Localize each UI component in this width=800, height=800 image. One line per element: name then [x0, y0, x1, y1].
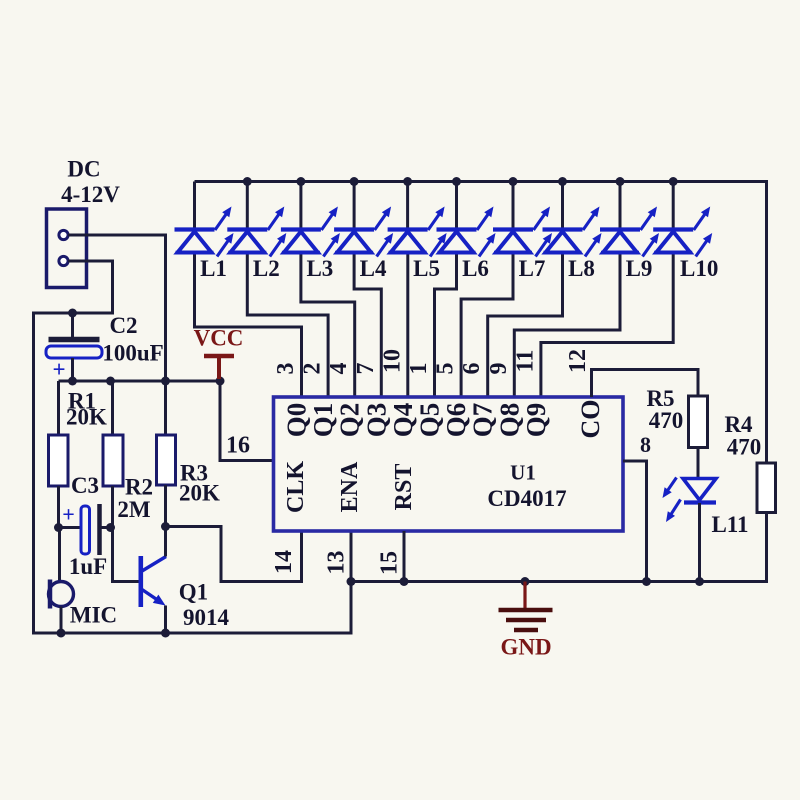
- svg-text:DC: DC: [67, 157, 100, 182]
- svg-text:+: +: [62, 502, 75, 527]
- svg-text:12: 12: [565, 349, 591, 373]
- svg-text:Q0: Q0: [282, 403, 312, 438]
- label GND: [500, 635, 551, 660]
- LED L1: [175, 182, 302, 398]
- label R1 value 20K: [66, 405, 107, 430]
- svg-text:470: 470: [649, 408, 684, 433]
- label pin 13: [324, 551, 350, 575]
- wire IC pin 8 to ground: [623, 461, 647, 582]
- wire C3 to R2 node: [100, 526, 111, 529]
- svg-text:L2: L2: [253, 256, 280, 281]
- resistor R5: [689, 396, 708, 448]
- node VCC-R2: [106, 377, 115, 386]
- resistor R1: [49, 381, 69, 528]
- node VCC-pin16 corner: [216, 377, 225, 386]
- transistor Q1 emitter stroke with arrow: [142, 590, 166, 606]
- label L11: [711, 512, 748, 537]
- transistor Q1 base bar: [139, 556, 144, 607]
- transistor Q1 collector stroke: [142, 557, 166, 572]
- node MIC-ground rail: [57, 629, 66, 638]
- svg-text:CO: CO: [576, 400, 605, 439]
- LED L10: [541, 182, 712, 398]
- svg-text:11: 11: [512, 350, 538, 373]
- terminal pin 1 (DC+): [59, 230, 68, 239]
- label CLK: [283, 461, 309, 513]
- label R5 value 470: [649, 408, 684, 433]
- svg-text:MIC: MIC: [70, 603, 117, 628]
- svg-text:16: 16: [226, 433, 250, 459]
- node C3-R2-base: [106, 523, 115, 532]
- wire CO pin 12 to R5: [592, 370, 699, 398]
- svg-text:Q1: Q1: [308, 403, 338, 438]
- power symbol VCC: [204, 356, 234, 379]
- node ENA-ground line: [347, 577, 356, 586]
- svg-text:L5: L5: [413, 256, 440, 281]
- label R3: [180, 461, 208, 486]
- label C3: [71, 473, 99, 498]
- label L4: [360, 256, 387, 281]
- label pin 11: [512, 350, 538, 373]
- label R1: [68, 389, 96, 414]
- wire LED cathode bus to R4: [195, 182, 767, 463]
- node pin8-ground line: [642, 577, 651, 586]
- svg-text:L1: L1: [200, 256, 227, 281]
- label pin 12: [565, 349, 591, 373]
- svg-text:9014: 9014: [183, 605, 230, 630]
- capacitor C2 wire bottom: [71, 358, 74, 381]
- svg-text:L3: L3: [306, 256, 333, 281]
- label pin 14: [271, 550, 297, 574]
- wire collector to CLK pin 14: [166, 527, 302, 582]
- svg-text:470: 470: [727, 435, 762, 460]
- label VCC: [194, 326, 244, 351]
- svg-text:Q3: Q3: [361, 403, 391, 438]
- wire DC+ to VCC rail: [68, 235, 166, 381]
- LED L4: [334, 182, 393, 398]
- label L3: [306, 256, 333, 281]
- svg-text:Q4: Q4: [388, 403, 418, 438]
- svg-text:10: 10: [379, 349, 405, 373]
- label pin 6: [459, 363, 485, 375]
- resistor R2: [103, 381, 123, 528]
- svg-text:C3: C3: [71, 473, 99, 498]
- microphone MIC symbol: [49, 580, 74, 609]
- label 9014: [183, 605, 230, 630]
- svg-text:14: 14: [271, 550, 297, 574]
- LED L6: [435, 182, 496, 398]
- terminal pin 2 (DC-): [59, 256, 68, 265]
- label L10: [680, 256, 718, 281]
- svg-text:1: 1: [406, 363, 432, 375]
- LED L3: [281, 182, 355, 398]
- node VCC-R3: [161, 377, 170, 386]
- label L6: [462, 256, 489, 281]
- label L8: [568, 256, 595, 281]
- svg-text:100uF: 100uF: [102, 341, 163, 366]
- label L2: [253, 256, 280, 281]
- label pin 5: [433, 363, 459, 375]
- svg-text:CD4017: CD4017: [487, 486, 566, 511]
- LED L11: [663, 478, 717, 523]
- svg-text:4: 4: [326, 363, 352, 375]
- label RST: [391, 464, 417, 511]
- label pin 1: [406, 363, 432, 375]
- capacitor C2 plate positive: [46, 346, 102, 358]
- svg-text:5: 5: [433, 363, 459, 375]
- svg-text:15: 15: [377, 551, 403, 575]
- label L1: [200, 256, 227, 281]
- svg-text:9: 9: [486, 363, 512, 375]
- node L11-ground line: [695, 577, 704, 586]
- svg-text:Q8: Q8: [494, 403, 524, 438]
- wire L11 to ground line: [698, 503, 701, 582]
- polarity + of C2: [52, 357, 65, 382]
- svg-text:L8: L8: [568, 256, 595, 281]
- node GND stem: [521, 577, 530, 586]
- svg-text:L6: L6: [462, 256, 489, 281]
- svg-text:L9: L9: [626, 256, 653, 281]
- svg-text:13: 13: [324, 551, 350, 575]
- nodes on LED bus: [243, 177, 678, 186]
- LED L9: [514, 182, 659, 398]
- microphone MIC wire top: [58, 528, 61, 584]
- node R1-C3-MIC: [54, 523, 63, 532]
- resistor R3: [157, 381, 176, 527]
- capacitor C3 plate negative: [97, 504, 102, 555]
- label R2 value 2M: [117, 497, 151, 522]
- label 100uF: [102, 341, 163, 366]
- label pin 3: [273, 363, 299, 375]
- label L5: [413, 256, 440, 281]
- svg-text:ENA: ENA: [337, 461, 363, 512]
- wire Q1 emitter down: [164, 606, 167, 634]
- svg-text:Q2: Q2: [335, 403, 365, 438]
- svg-text:CLK: CLK: [283, 461, 309, 513]
- label R3 value 20K: [179, 481, 220, 506]
- microphone MIC wire bottom: [60, 607, 63, 634]
- svg-text:GND: GND: [500, 635, 551, 660]
- label pin 4: [326, 363, 352, 375]
- resistor R4: [757, 463, 776, 513]
- label R4: [724, 412, 753, 437]
- svg-text:Q6: Q6: [441, 403, 471, 438]
- wire node to C3: [59, 526, 82, 529]
- label C3 value 1uF: [69, 554, 107, 579]
- wire RST pin 15 to ground: [403, 531, 406, 582]
- labels Q0-Q9 outputs: [282, 403, 551, 438]
- LED L5: [388, 182, 447, 398]
- node RST-ground line: [400, 577, 409, 586]
- svg-text:Q9: Q9: [521, 403, 551, 438]
- label pin 9: [486, 363, 512, 375]
- label R5: [646, 386, 674, 411]
- svg-text:L10: L10: [680, 256, 718, 281]
- label ENA: [337, 461, 363, 512]
- svg-text:U1: U1: [510, 461, 536, 485]
- label pin 8: [640, 432, 651, 457]
- node VCC-C2: [68, 377, 77, 386]
- wire R2 node to Q1 base: [113, 528, 139, 582]
- label pin 15: [377, 551, 403, 575]
- label R2: [125, 475, 153, 500]
- node DC- / C2 junction: [68, 309, 77, 318]
- LED L7: [461, 182, 552, 398]
- svg-text:2: 2: [300, 363, 326, 375]
- label pin 10: [379, 349, 405, 373]
- label pin 16: [226, 433, 250, 459]
- svg-text:L11: L11: [711, 512, 748, 537]
- svg-text:8: 8: [640, 432, 651, 457]
- svg-text:R4: R4: [724, 412, 753, 437]
- svg-text:L4: L4: [360, 256, 387, 281]
- op-amp U1 CD4017 IC body: [274, 397, 624, 531]
- ground GND symbol: [499, 582, 553, 631]
- LED L2: [227, 182, 328, 398]
- svg-text:R2: R2: [125, 475, 153, 500]
- connector J1 DC power jack: [47, 209, 87, 288]
- svg-text:C2: C2: [109, 313, 137, 338]
- svg-text:+: +: [52, 357, 65, 382]
- label DC: [67, 157, 100, 182]
- label R4 value 470: [727, 435, 762, 460]
- label Q1: [179, 580, 208, 605]
- node emitter-ground rail: [161, 629, 170, 638]
- svg-text:20K: 20K: [66, 405, 107, 430]
- label 4-12V: [61, 182, 120, 207]
- LED L8: [488, 182, 602, 398]
- svg-text:2M: 2M: [117, 497, 151, 522]
- label pin 2: [300, 363, 326, 375]
- wire Q1 collector up: [164, 527, 167, 557]
- wire VCC rail with pin16 branch: [59, 381, 274, 461]
- svg-text:RST: RST: [391, 464, 417, 511]
- node collector-R3: [161, 522, 170, 531]
- svg-text:4-12V: 4-12V: [61, 182, 120, 207]
- label MIC: [70, 603, 117, 628]
- svg-text:7: 7: [353, 363, 379, 375]
- svg-text:L7: L7: [519, 256, 546, 281]
- svg-text:Q1: Q1: [179, 580, 208, 605]
- label U1: [510, 461, 536, 485]
- polarity + of C3: [62, 502, 75, 527]
- capacitor C3 plate positive: [81, 506, 90, 554]
- svg-text:3: 3: [273, 363, 299, 375]
- svg-text:Q5: Q5: [415, 403, 445, 438]
- svg-text:1uF: 1uF: [69, 554, 107, 579]
- label pin 7: [353, 363, 379, 375]
- capacitor C2 wire top: [71, 313, 74, 337]
- svg-text:Q7: Q7: [468, 403, 498, 438]
- svg-text:20K: 20K: [179, 481, 220, 506]
- capacitor C2 plate negative: [49, 337, 100, 343]
- label C2: [109, 313, 137, 338]
- label CO output: [576, 400, 605, 439]
- wire ground line to R4: [351, 512, 767, 582]
- wire R5 to L11: [697, 448, 700, 478]
- label L9: [626, 256, 653, 281]
- label CD4017: [487, 486, 566, 511]
- svg-text:VCC: VCC: [194, 326, 244, 351]
- label L7: [519, 256, 546, 281]
- svg-text:6: 6: [459, 363, 485, 375]
- wire DC- to ground rails (left rail, bottom rail): [34, 261, 352, 633]
